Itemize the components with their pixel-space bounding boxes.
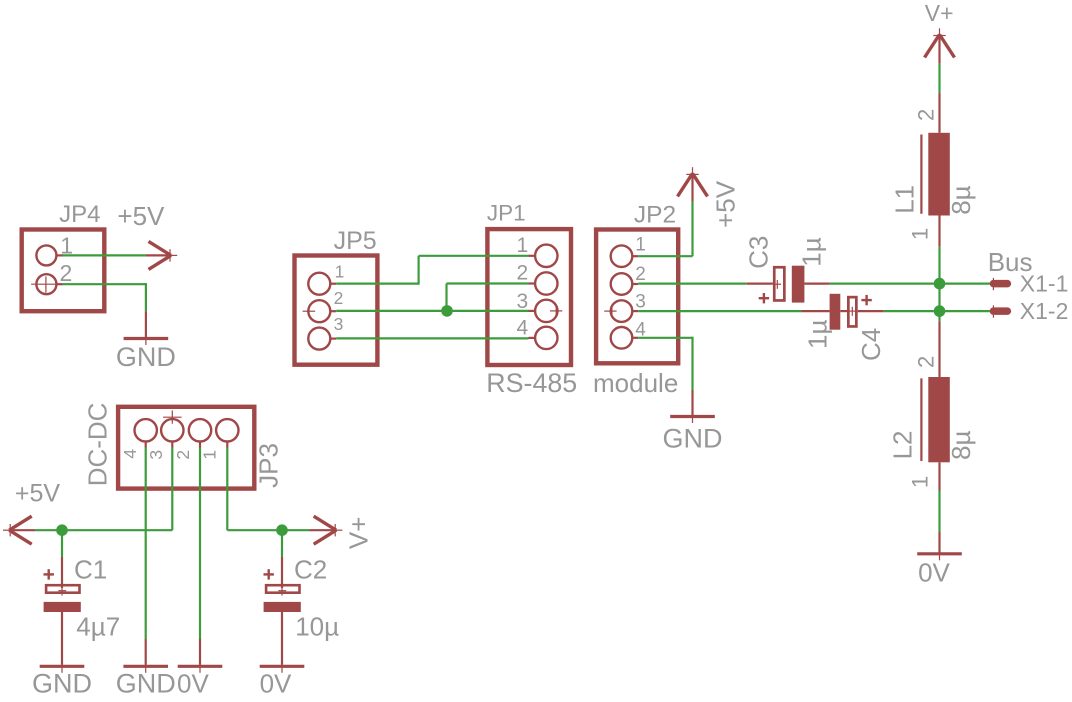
svg-text:3: 3 (334, 314, 344, 334)
svg-text:module: module (593, 368, 678, 398)
svg-text:3: 3 (635, 292, 646, 313)
svg-text:X1-1: X1-1 (1020, 270, 1069, 296)
svg-text:0V: 0V (260, 669, 292, 698)
svg-text:+5V: +5V (711, 180, 741, 228)
svg-text:1: 1 (517, 234, 529, 257)
svg-text:JP2: JP2 (634, 201, 676, 228)
svg-text:JP3: JP3 (254, 443, 284, 488)
svg-text:1: 1 (908, 228, 933, 240)
svg-text:GND: GND (663, 424, 723, 454)
svg-text:2: 2 (173, 450, 193, 460)
svg-text:1: 1 (635, 235, 646, 256)
svg-text:GND: GND (116, 669, 176, 698)
svg-text:+5V: +5V (15, 479, 61, 507)
svg-text:C4: C4 (856, 328, 886, 361)
svg-text:V+: V+ (344, 517, 374, 550)
svg-text:1µ: 1µ (796, 237, 826, 266)
svg-text:L2: L2 (888, 430, 918, 459)
svg-text:JP5: JP5 (334, 227, 377, 255)
svg-text:1: 1 (200, 450, 220, 460)
svg-text:C1: C1 (74, 555, 107, 585)
svg-text:+5V: +5V (117, 201, 165, 231)
svg-text:3: 3 (517, 290, 529, 313)
svg-text:4: 4 (120, 449, 140, 459)
svg-text:JP4: JP4 (59, 201, 100, 228)
svg-text:L1: L1 (890, 185, 920, 214)
svg-text:GND: GND (116, 342, 176, 372)
svg-text:10µ: 10µ (295, 612, 339, 642)
svg-text:X1-2: X1-2 (1020, 298, 1069, 324)
svg-text:4µ7: 4µ7 (76, 612, 120, 642)
svg-text:8µ: 8µ (946, 431, 976, 460)
svg-text:0V: 0V (177, 669, 209, 698)
svg-text:2: 2 (914, 109, 939, 121)
svg-text:JP1: JP1 (487, 201, 526, 226)
svg-text:C3: C3 (743, 236, 773, 269)
svg-text:1: 1 (908, 476, 933, 488)
svg-text:2: 2 (635, 264, 646, 285)
svg-text:C2: C2 (294, 555, 327, 585)
svg-text:8µ: 8µ (946, 185, 976, 214)
svg-text:2: 2 (914, 356, 939, 368)
svg-text:2: 2 (334, 288, 344, 308)
svg-text:1: 1 (335, 261, 345, 281)
svg-text:V+: V+ (925, 0, 954, 26)
svg-text:2: 2 (60, 260, 73, 286)
svg-text:0V: 0V (918, 557, 950, 587)
svg-text:2: 2 (517, 262, 529, 285)
svg-text:1µ: 1µ (802, 320, 832, 349)
svg-text:RS-485: RS-485 (486, 368, 577, 398)
svg-text:3: 3 (146, 450, 166, 460)
svg-text:GND: GND (32, 669, 92, 698)
svg-text:DC-DC: DC-DC (83, 403, 113, 487)
svg-text:4: 4 (517, 317, 529, 340)
